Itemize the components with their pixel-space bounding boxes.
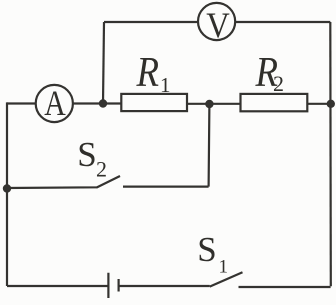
- svg-text:S: S: [77, 135, 96, 174]
- svg-text:V: V: [206, 5, 230, 45]
- svg-text:2: 2: [273, 71, 284, 96]
- svg-text:A: A: [44, 83, 66, 123]
- svg-text:2: 2: [96, 157, 107, 182]
- svg-text:R: R: [136, 50, 159, 96]
- svg-text:1: 1: [219, 257, 229, 278]
- svg-text:S: S: [197, 230, 216, 269]
- svg-text:1: 1: [160, 73, 171, 97]
